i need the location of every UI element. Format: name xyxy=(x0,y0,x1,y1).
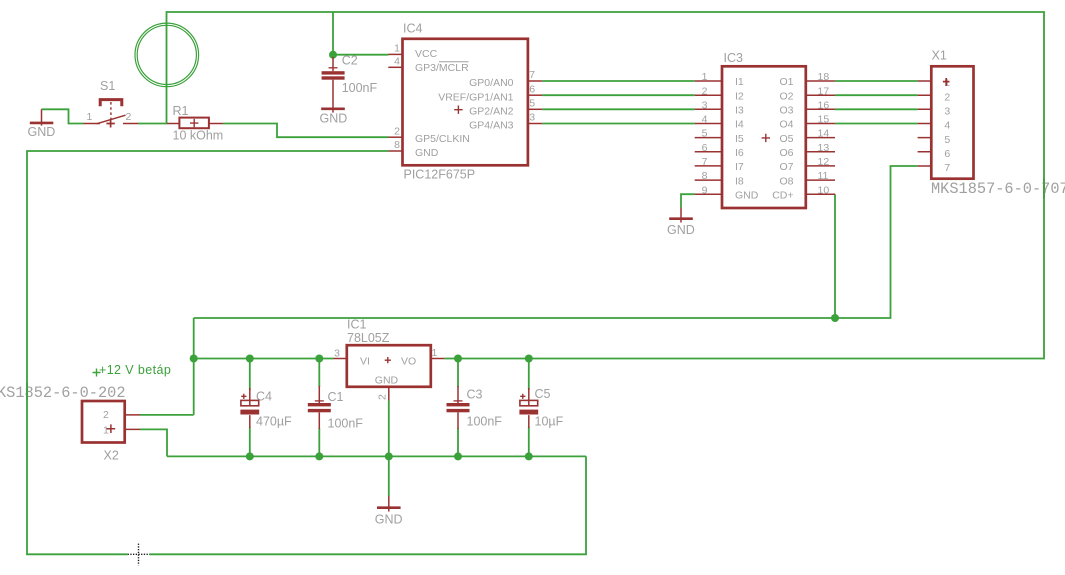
svg-text:3: 3 xyxy=(944,106,950,118)
junction dot C5 bottom xyxy=(525,452,533,460)
resistor R1 xyxy=(167,104,223,143)
svg-text:12: 12 xyxy=(818,156,830,168)
ground GND under IC3 xyxy=(667,208,695,237)
svg-text:GND: GND xyxy=(375,512,403,526)
svg-text:78L05Z: 78L05Z xyxy=(347,331,390,345)
svg-text:GND: GND xyxy=(735,189,759,201)
wire IC3 CD+ pin10 down xyxy=(834,194,836,318)
wire IC4 pin5 to IC3 pin3 xyxy=(542,108,694,110)
IC4 pin 2 GP5/CLKIN xyxy=(389,136,403,138)
wire +5V rail left of IC1 xyxy=(194,358,334,360)
svg-text:2: 2 xyxy=(103,409,109,421)
svg-text:X1: X1 xyxy=(932,49,947,63)
wire overlay left vertical over X2 value text xyxy=(26,383,28,400)
svg-text:GND: GND xyxy=(667,223,695,237)
svg-text:O2: O2 xyxy=(779,90,793,102)
junction dot CD+ xyxy=(831,314,839,322)
junction dot C1 top xyxy=(315,355,323,363)
junction dot +12V rail left xyxy=(190,355,198,363)
wire S1 pin2 to R1 xyxy=(138,123,167,125)
svg-text:2: 2 xyxy=(126,111,132,123)
svg-text:C2: C2 xyxy=(342,53,358,67)
wire C4 bottom lead xyxy=(249,427,251,456)
wire R1 to IC4 GP5/CLKIN xyxy=(223,124,389,138)
IC4 pin 8 GND xyxy=(389,150,403,152)
svg-text:O4: O4 xyxy=(779,119,793,131)
svg-text:17: 17 xyxy=(818,85,830,97)
svg-text:6: 6 xyxy=(529,83,535,95)
svg-text:O6: O6 xyxy=(779,147,793,159)
X1 pins 1-7 stubs xyxy=(918,81,932,166)
junction dot IC1 GND bottom xyxy=(385,452,393,460)
wire C3 bottom lead xyxy=(457,428,459,456)
IC4 pin 4 GP3/MCLR xyxy=(388,66,402,68)
svg-text:7: 7 xyxy=(944,162,950,174)
svg-text:GP3/MCLR: GP3/MCLR xyxy=(415,62,469,74)
wire VCC net: coil top to top-right corner down to +5V rail xyxy=(167,12,1045,359)
wire IC3 pin16 to X1 pin3 xyxy=(835,108,918,110)
svg-text:13: 13 xyxy=(818,142,830,154)
svg-text:O8: O8 xyxy=(779,175,793,187)
IC4 pin 1 VCC xyxy=(389,53,403,55)
svg-text:IC3: IC3 xyxy=(724,51,744,65)
wire IC3 pin18 to X1 pin1 xyxy=(835,80,918,82)
svg-text:3: 3 xyxy=(529,112,535,124)
origin cross of sheet (dotted) xyxy=(128,544,150,566)
wire C5 bottom lead xyxy=(528,427,530,456)
IC1 origin cross xyxy=(385,357,391,363)
IC4 pin 5 GP2/AN2 xyxy=(528,108,542,110)
junction dot C5 top xyxy=(525,355,533,363)
svg-text:O7: O7 xyxy=(779,161,793,173)
svg-text:C3: C3 xyxy=(467,387,483,401)
junction dot C3 top xyxy=(454,355,462,363)
wire IC3 pin17 to X1 pin2 xyxy=(835,94,918,96)
svg-text:CD+: CD+ xyxy=(772,189,793,201)
svg-text:R1: R1 xyxy=(173,104,189,118)
svg-text:5: 5 xyxy=(944,134,950,146)
svg-text:X2: X2 xyxy=(104,448,119,462)
svg-text:I7: I7 xyxy=(735,161,744,173)
svg-text:5: 5 xyxy=(529,97,535,109)
wire GND rail bottom xyxy=(167,455,586,457)
svg-text:C5: C5 xyxy=(535,387,551,401)
wire IC4 pin6 to IC3 pin2 xyxy=(542,94,694,96)
svg-text:7: 7 xyxy=(529,69,535,81)
wire overlay right vertical over X1 value text xyxy=(1043,178,1045,198)
svg-text:I6: I6 xyxy=(735,147,744,159)
op IC4 PIC12F675P xyxy=(388,21,542,181)
junction dot C4 top xyxy=(246,355,254,363)
svg-text:2: 2 xyxy=(394,125,400,137)
svg-text:I8: I8 xyxy=(735,175,744,187)
svg-text:GND: GND xyxy=(415,147,439,159)
junction dot C1 bottom xyxy=(315,452,323,460)
capacitor C1 100nF xyxy=(308,386,364,431)
svg-text:VO: VO xyxy=(401,356,416,368)
svg-text:10: 10 xyxy=(818,184,830,196)
svg-text:8: 8 xyxy=(394,139,400,151)
svg-text:VI: VI xyxy=(360,356,370,368)
wire X2 pin1 to GND rail xyxy=(140,429,167,456)
wire IC3 pin9 to GND xyxy=(681,194,695,207)
IC4 origin cross xyxy=(454,106,462,114)
svg-text:PIC12F675P: PIC12F675P xyxy=(404,168,476,182)
coil antenna circle inner xyxy=(137,25,196,84)
svg-text:VREF/GP1/AN1: VREF/GP1/AN1 xyxy=(438,91,513,103)
svg-text:1: 1 xyxy=(944,77,950,89)
svg-text:O1: O1 xyxy=(779,76,793,88)
svg-text:IC4: IC4 xyxy=(403,21,423,35)
svg-text:I3: I3 xyxy=(735,105,744,117)
svg-text:10 kOhm: 10 kOhm xyxy=(173,129,224,143)
svg-text:2: 2 xyxy=(377,394,389,400)
junction dot C4 bottom xyxy=(246,452,254,460)
svg-text:GND: GND xyxy=(28,125,56,139)
svg-text:+12 V betáp: +12 V betáp xyxy=(99,363,171,377)
IC1 pin 1 VO xyxy=(431,358,444,360)
svg-text:C1: C1 xyxy=(328,390,344,404)
svg-text:1: 1 xyxy=(432,347,438,359)
IC3 origin cross xyxy=(762,134,770,142)
svg-text:9: 9 xyxy=(702,184,708,196)
svg-text:1: 1 xyxy=(702,71,708,83)
svg-text:3: 3 xyxy=(702,99,708,111)
svg-text:100nF: 100nF xyxy=(467,414,503,428)
svg-text:15: 15 xyxy=(818,114,830,126)
IC1 pin 3 VI xyxy=(334,358,347,360)
svg-text:18: 18 xyxy=(818,71,830,83)
svg-text:100nF: 100nF xyxy=(342,81,378,95)
capacitor C2 xyxy=(322,53,378,112)
svg-text:5: 5 xyxy=(702,128,708,140)
wire C3 top lead xyxy=(457,359,459,388)
node +12V label xyxy=(93,363,172,377)
wire C1 top lead xyxy=(318,359,320,388)
svg-text:2: 2 xyxy=(702,85,708,97)
wire C1 bottom lead xyxy=(318,428,320,456)
svg-text:4: 4 xyxy=(702,114,708,126)
ground GND under IC1 xyxy=(375,496,403,526)
svg-text:1: 1 xyxy=(103,424,109,436)
wire IC4 pin3 to IC3 pin4 xyxy=(542,123,694,125)
svg-text:11: 11 xyxy=(818,170,829,182)
wire CD+ net vertical to X2 pin2 xyxy=(140,318,194,415)
svg-text:1: 1 xyxy=(87,111,93,123)
svg-text:I2: I2 xyxy=(735,90,744,102)
svg-text:3: 3 xyxy=(334,348,340,360)
junction dot C2/VCC xyxy=(329,51,337,59)
svg-text:6: 6 xyxy=(702,142,708,154)
capacitor C5 10uF electrolytic xyxy=(519,387,563,429)
svg-text:I5: I5 xyxy=(735,133,744,145)
svg-text:O5: O5 xyxy=(779,133,793,145)
IC4 pin 3 GP4/AN3 xyxy=(528,123,542,125)
svg-text:O3: O3 xyxy=(779,105,793,117)
IC4 pin 6 VREF/GP1/AN1 xyxy=(528,94,542,96)
wire IC4 GND pin8 to left rail down to bottom xyxy=(27,151,586,554)
wire IC1 GND pin2 down xyxy=(388,401,390,497)
svg-text:MKS1852-6-0-202: MKS1852-6-0-202 xyxy=(0,384,126,402)
svg-text:2: 2 xyxy=(944,91,950,103)
svg-text:8: 8 xyxy=(702,170,708,182)
svg-text:16: 16 xyxy=(818,99,830,111)
wire C4 top lead xyxy=(249,359,251,391)
switch S1 xyxy=(84,79,139,128)
svg-text:6: 6 xyxy=(944,148,950,160)
IC4 pin 7 GP0/AN0 xyxy=(528,80,542,82)
svg-text:GP0/AN0: GP0/AN0 xyxy=(469,77,514,89)
op IC1 78L05Z regulator xyxy=(334,318,445,401)
wire C5 top lead xyxy=(528,359,530,391)
svg-text:4: 4 xyxy=(944,120,950,132)
IC1 pin 2 GND xyxy=(388,387,390,401)
svg-text:I1: I1 xyxy=(735,76,744,88)
svg-text:IC1: IC1 xyxy=(347,318,367,332)
svg-text:I4: I4 xyxy=(735,119,744,131)
IC3 left pins 1-9 xyxy=(695,81,722,194)
svg-text:S1: S1 xyxy=(100,79,115,93)
svg-text:4: 4 xyxy=(394,55,400,67)
svg-text:10µF: 10µF xyxy=(535,414,564,428)
svg-text:GP5/CLKIN: GP5/CLKIN xyxy=(415,133,470,145)
svg-text:100nF: 100nF xyxy=(328,417,364,431)
connector X2 xyxy=(0,384,140,462)
junction dot C3 bottom xyxy=(454,452,462,460)
svg-text:470µF: 470µF xyxy=(256,415,292,429)
capacitor C4 470uF electrolytic xyxy=(240,388,292,429)
capacitor C3 100nF xyxy=(447,386,503,429)
svg-text:VCC: VCC xyxy=(415,48,438,60)
coil antenna circle outer xyxy=(135,23,199,87)
svg-text:7: 7 xyxy=(702,156,708,168)
wire VCC branch to C2/IC4 pin1 xyxy=(333,12,389,55)
svg-text:GND: GND xyxy=(320,112,348,126)
op IC3 driver xyxy=(695,51,835,208)
IC3 right pins 18-10 xyxy=(806,81,835,194)
svg-text:14: 14 xyxy=(818,128,830,140)
ground GND top-left xyxy=(28,109,56,139)
wire GND1 to S1 pin1 xyxy=(42,109,84,123)
wire CD+ net horizontal to X1 pin7 xyxy=(194,166,918,318)
ground GND under C2 xyxy=(320,109,348,126)
svg-text:GP4/AN3: GP4/AN3 xyxy=(469,120,514,132)
wire IC3 pin15 to X1 pin4 xyxy=(835,123,918,125)
svg-text:1: 1 xyxy=(394,42,400,54)
svg-text:GND: GND xyxy=(375,375,399,387)
svg-text:GP2/AN2: GP2/AN2 xyxy=(469,105,514,117)
wire IC4 pin7 to IC3 pin1 xyxy=(542,80,694,82)
connector X1 xyxy=(918,49,1065,199)
